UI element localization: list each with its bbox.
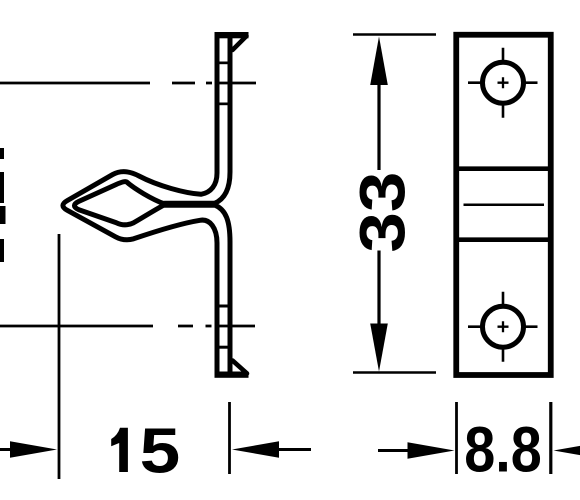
svg-text:33: 33 <box>346 172 418 253</box>
svg-text:5: 5 <box>140 415 181 487</box>
svg-text:8.8: 8.8 <box>464 414 542 486</box>
